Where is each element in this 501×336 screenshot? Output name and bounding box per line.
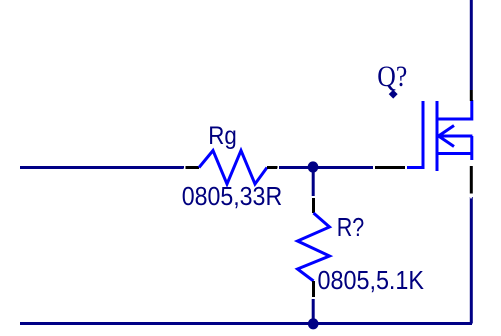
drain lead (439, 100, 472, 119)
arrow barb lower (439, 136, 455, 147)
resistor Rg (186, 151, 278, 185)
arrow barb upper (439, 126, 455, 137)
gate bar (422, 101, 425, 169)
body-source vertical (470, 136, 473, 160)
wire source down to bottom net (470, 197, 473, 324)
svg-text:Q?: Q? (377, 60, 407, 93)
node marker diamond under Q? (389, 90, 398, 99)
pin end markers (white gaps where pins meet wires) (184, 168, 472, 198)
wire bottom net (20, 322, 472, 325)
junction node gate/R? (308, 161, 319, 172)
wire junction to R? (312, 168, 315, 196)
pin gate (black) (375, 166, 405, 169)
pin drain (black) (470, 90, 473, 101)
channel bar (436, 101, 439, 171)
transistor Q1 N-MOSFET (375, 90, 472, 194)
svg-text:R?: R? (337, 212, 365, 242)
svg-text:0805,5.1K: 0805,5.1K (318, 265, 425, 295)
source stub (439, 152, 473, 155)
pin source (black) (470, 166, 473, 194)
wire left input net (20, 166, 184, 169)
wire top drain net (470, 0, 473, 90)
wire Rg to gate net (279, 166, 373, 169)
svg-text:Rg: Rg (208, 122, 237, 150)
gate lead (407, 166, 425, 169)
resistor R? (298, 198, 330, 297)
junction node bottom (308, 318, 319, 329)
svg-text:0805,33R: 0805,33R (182, 181, 283, 211)
body stub with arrow (439, 135, 473, 138)
wire R? to bottom net (312, 299, 315, 322)
